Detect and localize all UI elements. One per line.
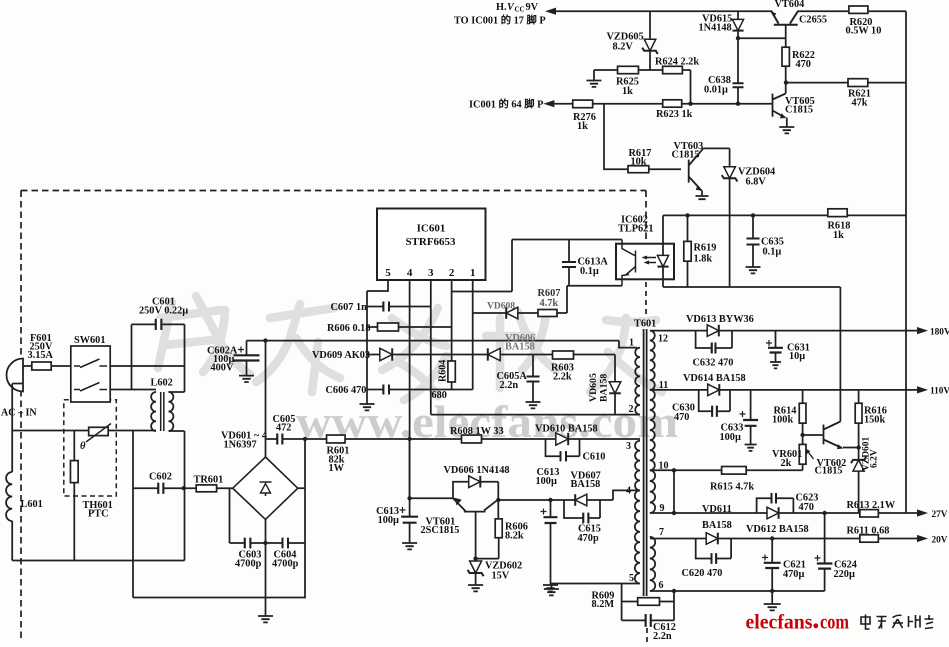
svg-text:CC: CC [515, 6, 525, 14]
svg-text:470µ: 470µ [783, 569, 804, 580]
svg-text:6.8V: 6.8V [746, 177, 767, 188]
capacitor C624 branch [824, 513, 826, 564]
svg-text:5: 5 [629, 573, 634, 584]
junction C602/TR601 node [182, 486, 186, 490]
svg-text:VD606 1N4148: VD606 1N4148 [444, 465, 510, 476]
wire 110V line [650, 389, 918, 391]
PTC thermistor theta box [89, 427, 109, 435]
wire SW601 bottom pole [110, 389, 131, 391]
svg-text:470: 470 [796, 59, 811, 70]
junction base/zener/R606 [473, 556, 477, 560]
junction pin9 line [672, 511, 676, 515]
svg-text:R623 1k: R623 1k [656, 109, 693, 120]
svg-text:3: 3 [428, 267, 434, 279]
capacitor C607 [383, 302, 389, 312]
svg-text:1k: 1k [622, 86, 633, 97]
svg-text:400V: 400V [211, 363, 234, 374]
resistor R618 [828, 209, 847, 217]
junction ground node [770, 589, 774, 593]
resistor R623 [663, 100, 682, 107]
wire bridge top riser [265, 341, 267, 457]
ground IC601 bus [360, 404, 375, 410]
svg-text:1k: 1k [577, 121, 588, 132]
diode VD613 BYW36 [707, 325, 719, 337]
IC602 LED [662, 244, 664, 257]
T601 aux winding pins 3-4 [635, 441, 640, 491]
svg-text:C1815: C1815 [785, 105, 813, 116]
wire hot ground bus [366, 291, 368, 404]
wire T601 pin 2 line [431, 414, 640, 416]
svg-text:3.15A: 3.15A [28, 350, 54, 361]
filter choke L602 [151, 392, 156, 431]
svg-text:8.2V: 8.2V [613, 42, 634, 53]
svg-text:1: 1 [629, 338, 634, 349]
wire bottom AC line [12, 560, 184, 562]
svg-text:VD605: VD605 [588, 373, 599, 402]
ground C635 [746, 267, 761, 273]
dashed boundary top horizontal [21, 190, 646, 192]
capacitor C604 [283, 538, 289, 549]
ground cold output [771, 591, 773, 604]
bridge internal diode symbol [261, 484, 271, 494]
ground R625 [587, 81, 602, 87]
svg-text:TLP621: TLP621 [618, 224, 653, 235]
svg-text:472: 472 [276, 423, 291, 434]
capacitor C602 [158, 483, 163, 494]
svg-text:STRF6653: STRF6653 [405, 236, 456, 248]
diode VD610 [556, 433, 568, 445]
wire bridge right vertex stub [298, 487, 305, 489]
wire VD615 to VT604 base [738, 37, 786, 39]
wire C607 line [367, 306, 431, 308]
svg-text:180V: 180V [930, 328, 949, 338]
zener diode VZD605 [649, 11, 651, 39]
svg-text:C1815: C1815 [815, 466, 843, 477]
wire L602 right coil bottom [169, 430, 185, 432]
svg-text:1N6397: 1N6397 [224, 440, 257, 451]
T601 winding pins 4-5 [635, 490, 640, 583]
svg-text:TO IC001 的 17 脚 P: TO IC001 的 17 脚 P [454, 14, 546, 27]
capacitor C638 [733, 83, 744, 87]
capacitor C602A [246, 341, 248, 356]
wire to VT601 emitter [410, 497, 453, 499]
transistor VT601 2SC1815 [453, 498, 497, 511]
wire VD609 line y354 [367, 354, 615, 356]
wire R606 to pin2 [399, 326, 452, 328]
svg-text:R608 1W 33: R608 1W 33 [450, 426, 504, 437]
wire R622 to VT605 collector [785, 66, 787, 93]
svg-text:9V: 9V [526, 2, 539, 13]
svg-text:15V: 15V [492, 571, 510, 582]
junction pin10 line [672, 468, 676, 472]
resistor R616 150k [858, 390, 860, 403]
svg-text:470: 470 [674, 412, 689, 423]
wire bridge bottom to ground [265, 519, 267, 616]
wire T601 pin 5 line [551, 583, 640, 585]
capacitor C623 loop [757, 498, 794, 513]
svg-text:7: 7 [659, 527, 664, 538]
svg-text:VD612 BA158: VD612 BA158 [746, 524, 809, 535]
diode VD611 BA158 [706, 533, 718, 545]
resistor R621 [848, 79, 868, 87]
wire x133 vertical [132, 431, 134, 598]
wire VT603 collector [703, 148, 729, 167]
svg-text:2.2n: 2.2n [653, 631, 672, 642]
ground T601 pin 5 [544, 589, 559, 595]
capacitor C620 loop [696, 539, 731, 559]
junction C624 top [822, 511, 826, 515]
ground C631 [770, 362, 781, 368]
wire B+ rail y341 [247, 340, 620, 342]
wire pin5 ground stub [550, 584, 552, 590]
capacitor C605A [532, 355, 534, 377]
dashed boundary at IC602 top [645, 191, 647, 244]
wire R617 to VT603 base [649, 168, 681, 170]
wire top rail left [556, 10, 771, 12]
resistor R617 [628, 166, 649, 173]
resistor R608 [462, 435, 482, 443]
transistor VT605 C1815 [773, 94, 786, 118]
wire IC601 pin 5 [367, 280, 388, 291]
wire R601 R608 line y439 [266, 438, 641, 440]
svg-text:1: 1 [470, 267, 476, 279]
wire VT601 base stem [475, 512, 477, 562]
capacitor C633 [750, 390, 752, 420]
resistor R609 [638, 598, 660, 606]
svg-text:VD613 BYW36: VD613 BYW36 [686, 314, 754, 325]
resistor R625 [618, 66, 639, 73]
resistor R615 [722, 467, 747, 475]
wire VT604 base stem [785, 25, 787, 48]
diode VD607 BA158 [575, 494, 587, 506]
resistor R603 [553, 351, 574, 359]
capacitor C606 [383, 385, 389, 395]
wire bridge right vertex branch [304, 439, 306, 598]
junction R608 node [407, 437, 411, 441]
wire C603 C604 line [230, 542, 306, 544]
transistor VT603 C1815 [689, 148, 704, 190]
svg-text:20V: 20V [932, 536, 948, 546]
svg-text:R613 2.1W: R613 2.1W [847, 500, 896, 511]
wire B+ jog to T601 pin 1 [619, 341, 637, 348]
wire C606 line [367, 389, 473, 391]
diode VD608 [506, 307, 518, 319]
svg-text:47k: 47k [852, 98, 868, 109]
wire R625 ground stub [593, 70, 595, 81]
svg-text:BA158: BA158 [571, 479, 601, 490]
elecfans logo chinese text [861, 615, 934, 630]
svg-text:T601: T601 [634, 319, 656, 330]
wire R621 line [786, 82, 906, 84]
svg-text:2.2k: 2.2k [553, 372, 572, 383]
svg-text:100k: 100k [772, 415, 793, 426]
ground VT605 [779, 127, 794, 133]
wire 20V line y538 [650, 538, 918, 540]
wire R625 R624 line [594, 69, 691, 71]
svg-text:VT604: VT604 [775, 0, 805, 10]
svg-text:1N4148: 1N4148 [699, 23, 732, 34]
svg-text:470: 470 [799, 502, 814, 513]
arrow 27V [917, 509, 928, 516]
wire F601 to SW601 [51, 365, 71, 367]
svg-text:R619: R619 [694, 243, 717, 254]
capacitor C632 loop [696, 331, 732, 348]
junction R619 top [685, 213, 689, 217]
wire IC601 pin 1 vertical [472, 280, 474, 390]
wire to L602 left coil [132, 389, 157, 391]
svg-text:4700p: 4700p [235, 559, 262, 570]
IC602 light arrows [644, 258, 656, 263]
wire R606 stub [367, 326, 378, 328]
transformer T601 core [644, 329, 647, 596]
svg-text:VD609 AK03: VD609 AK03 [312, 350, 370, 361]
wire to T601 pin 4 [613, 490, 640, 500]
svg-text:4700p: 4700p [272, 559, 299, 570]
svg-text:C606 470: C606 470 [326, 385, 367, 396]
junction B+ rail / bridge riser [263, 338, 267, 342]
junction C613b top [548, 498, 552, 502]
ground VT603 [696, 196, 709, 199]
arrow 20V [917, 535, 928, 542]
svg-text:0.1µ: 0.1µ [763, 247, 782, 258]
resistor R614 100k [802, 390, 804, 403]
svg-text:250V 0.22µ: 250V 0.22µ [139, 306, 188, 317]
capacitor C631 [775, 331, 777, 348]
wire C601 left vertical [131, 324, 133, 389]
wire VT603 emitter [701, 191, 703, 197]
wire R623 base line [554, 103, 772, 105]
svg-text:100µ: 100µ [536, 476, 557, 487]
capacitor C603 [245, 538, 251, 549]
wire R607 up to C613A line [557, 286, 567, 313]
svg-text:110V: 110V [930, 387, 949, 397]
svg-text:0.01µ: 0.01µ [704, 85, 728, 96]
svg-text:SW601: SW601 [74, 335, 105, 346]
svg-text:C2655: C2655 [799, 15, 827, 26]
capacitor C612 [646, 614, 651, 627]
resistor R276 [573, 100, 593, 108]
diode VD609 [380, 348, 392, 360]
svg-text:4: 4 [626, 486, 631, 497]
T601 secondary winding pins 10-9 [650, 470, 655, 513]
svg-text:1k: 1k [833, 230, 844, 241]
svg-text:C620 470: C620 470 [682, 568, 723, 579]
wire pin 6 ground line [650, 590, 825, 592]
wire VD608 line [473, 312, 538, 314]
svg-text:10k: 10k [631, 157, 647, 168]
capacitor C613A [568, 240, 570, 263]
wire IC601 pin 3 vertical [430, 280, 432, 415]
arrow 180V [917, 327, 928, 334]
IC602 phototransistor [622, 240, 636, 286]
svg-text:150k: 150k [864, 415, 885, 426]
svg-text:8.2k: 8.2k [505, 531, 524, 542]
wire L602 right coil down to C602 node [184, 431, 186, 487]
junction VT601 collector node [496, 498, 500, 502]
wire to C602 [133, 487, 158, 489]
T601 secondary winding pins 7-6 [650, 537, 655, 591]
T601 secondary winding pins 11-10 [650, 390, 655, 470]
svg-text:BA158: BA158 [599, 374, 610, 402]
svg-text:C607 1n: C607 1n [331, 302, 368, 313]
wire L601 bottom vertical [11, 521, 13, 561]
svg-text:4: 4 [407, 267, 413, 279]
svg-text:AC – IN: AC – IN [1, 408, 37, 419]
wire theta PTC line [12, 430, 156, 432]
svg-text:VD614 BA158: VD614 BA158 [683, 373, 746, 384]
wire R609 C612 left vertical [621, 584, 623, 621]
wire R618 line [663, 214, 906, 216]
capacitor C615 loop [564, 500, 600, 518]
svg-text:θ: θ [80, 441, 86, 452]
svg-text:TR601: TR601 [194, 475, 224, 486]
svg-text:VD610 BA158: VD610 BA158 [535, 424, 598, 435]
wire feedback vertical x840 to VT602 collector [839, 287, 841, 422]
bridge rectifier VD601-VD604 [233, 457, 298, 519]
wire plug to F601 [23, 365, 32, 367]
watermark ghost glyphs [158, 296, 662, 400]
wire VT605 emitter [786, 118, 788, 128]
svg-text:1W: 1W [329, 463, 345, 474]
wire C601 top [132, 323, 185, 325]
svg-text:220µ: 220µ [834, 569, 855, 580]
svg-text:27V: 27V [932, 510, 948, 520]
svg-text:R615 4.7k: R615 4.7k [710, 482, 754, 493]
svg-text:3: 3 [626, 441, 631, 452]
diode VD612 BA158 [767, 507, 779, 519]
svg-text:C1815: C1815 [672, 150, 700, 161]
dashed boundary below C612 [646, 628, 648, 642]
diode VD606 BA158 [488, 348, 500, 360]
wire SW601 top pole to L602 right branch [110, 365, 184, 367]
junction C638/base line [736, 102, 740, 106]
ground C633 [745, 445, 757, 451]
resistor R611 [860, 535, 879, 542]
resistor R601 [327, 435, 346, 443]
wire C612 line [622, 619, 674, 621]
wire top rail right [798, 10, 906, 12]
svg-text:R624 2.2k: R624 2.2k [655, 57, 699, 68]
svg-text:680: 680 [432, 390, 447, 401]
junction T601 pin 6 node [672, 589, 676, 593]
wire pin6 node down [673, 591, 675, 620]
wire VT602 base [803, 434, 823, 436]
wire TR601 to bridge left vertex [217, 487, 233, 489]
junction R624/R623 [688, 102, 692, 106]
transistor VT604 C2655 [771, 11, 798, 25]
svg-text:L602: L602 [151, 378, 173, 389]
arrow IC001-64 [543, 100, 554, 107]
zener diode VZD601 6.2V [853, 460, 864, 471]
wire 180V line [650, 330, 918, 332]
wire pin10 to pin9 vertical [673, 470, 675, 513]
diode VD606 1N4148 loop [453, 482, 498, 500]
svg-text:0.5W 10: 0.5W 10 [846, 26, 882, 37]
svg-text:2SC1815: 2SC1815 [421, 525, 460, 536]
svg-text:1.8k: 1.8k [694, 254, 713, 265]
resistor R620 [849, 6, 868, 13]
IC U IC601 STRF6653 box [377, 209, 486, 281]
svg-text:VD608: VD608 [487, 302, 515, 312]
wire bridge left vertex down [229, 488, 231, 543]
wire R624 down to base line [690, 70, 692, 104]
arrow H.Vcc [545, 8, 556, 15]
wire L602 right coil top [169, 391, 185, 393]
wire C601 right vertical [184, 324, 186, 392]
svg-text:5: 5 [385, 267, 391, 279]
svg-text:0.1µ: 0.1µ [580, 266, 599, 277]
resistor R607 [538, 310, 557, 317]
svg-text:2.2n: 2.2n [500, 380, 519, 391]
zener diode VZD602 [470, 561, 482, 573]
svg-text:8.2M: 8.2M [592, 599, 615, 610]
svg-text:12: 12 [658, 334, 668, 345]
junction C603 C604 node [263, 541, 267, 545]
svg-text:470p: 470p [578, 533, 599, 544]
svg-text:2: 2 [629, 404, 634, 415]
wire C613A bottom line [567, 285, 622, 287]
wire IC601 pin 2 jog to C613A line [452, 240, 512, 292]
ground bridge negative [258, 616, 273, 622]
svg-text:2: 2 [449, 267, 455, 279]
svg-text:2k: 2k [781, 458, 792, 469]
svg-text:L601: L601 [21, 499, 43, 510]
junction VD615 to VT604 base [736, 36, 740, 40]
AC plug [7, 359, 23, 392]
wire C602 to TR601 [163, 487, 196, 489]
svg-text:C632 470: C632 470 [693, 358, 734, 369]
svg-text:10µ: 10µ [789, 351, 805, 362]
wire R609 line [622, 601, 674, 603]
dashed boundary left vertical [20, 191, 22, 641]
capacitor C601 [156, 319, 162, 330]
svg-text:IC601: IC601 [417, 223, 446, 235]
wire R606 bottom to base [476, 558, 499, 560]
svg-text:com: com [820, 610, 849, 634]
wire C613A top line [512, 239, 622, 241]
zener diode VZD604 [724, 167, 736, 179]
resistor R606 0.18 [378, 323, 399, 331]
junction VT601 emitter line [407, 496, 411, 500]
wire VR601 bottom [802, 464, 804, 470]
wire VT601 node line y500 [498, 499, 613, 501]
wire C602 node down to bottom line [184, 487, 186, 561]
optocoupler IC602 TLP621 box [616, 244, 674, 280]
ground VZD602 [468, 585, 483, 591]
svg-text:H.: H. [496, 2, 507, 13]
capacitor C613 100u (VT601) [409, 439, 411, 517]
svg-text:PTC: PTC [88, 509, 109, 520]
svg-text:100µ: 100µ [720, 432, 741, 443]
resistor R606 8.2k [497, 500, 499, 519]
diode VD615 1N4148 [737, 11, 739, 19]
svg-text:C602: C602 [149, 472, 172, 483]
svg-text:R611 0.68: R611 0.68 [847, 526, 890, 537]
capacitor C610 loop [546, 439, 580, 456]
wire T601 pin 10 line [650, 469, 803, 471]
transistor VT602 C1815 [824, 422, 843, 449]
wire 27V line y513 [650, 512, 918, 514]
junction C635 top [751, 213, 755, 217]
resistor R622 [782, 47, 789, 66]
wire R604 bottom [451, 382, 453, 390]
wire R617 branch [604, 104, 628, 170]
arrow 110V [917, 386, 928, 393]
svg-text:6: 6 [659, 580, 664, 591]
junction R614 VR601 base [800, 433, 804, 437]
wire IC601 pin 4 vertical [409, 280, 411, 498]
diode VD614 BA158 [708, 384, 720, 396]
